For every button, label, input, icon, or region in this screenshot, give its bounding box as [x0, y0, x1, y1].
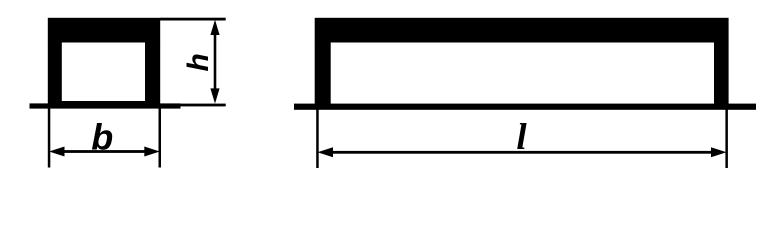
right view top flange — [315, 18, 729, 43]
left view ground line — [30, 103, 181, 108]
l dimension line shaft — [328, 151, 716, 154]
left view inner bottom edge — [60, 101, 147, 105]
b dimension left extension line — [48, 106, 51, 168]
h dimension up arrowhead — [210, 20, 219, 35]
left view right leg — [145, 42, 160, 104]
b dimension line shaft — [60, 150, 149, 153]
right view ground line — [294, 104, 756, 110]
svg-text:b: b — [91, 117, 113, 158]
right view left leg — [315, 42, 331, 104]
l dimension right arrowhead — [711, 147, 727, 157]
h dimension down arrowhead — [210, 88, 219, 103]
svg-text:h: h — [182, 53, 215, 71]
b dimension right extension line — [159, 106, 162, 168]
l dimension left arrowhead — [318, 147, 334, 157]
h dimension bottom extension line — [180, 104, 226, 107]
left view top flange — [48, 18, 160, 43]
left view left leg — [48, 42, 62, 104]
right view right leg — [714, 42, 729, 104]
b dimension right arrowhead — [144, 147, 160, 157]
b dimension left arrowhead — [49, 147, 65, 157]
l dimension left extension line — [316, 106, 319, 168]
h dimension top extension line — [160, 18, 226, 21]
l dimension right extension line — [725, 106, 728, 168]
h dimension line shaft — [214, 31, 217, 91]
svg-text:l: l — [516, 117, 527, 158]
